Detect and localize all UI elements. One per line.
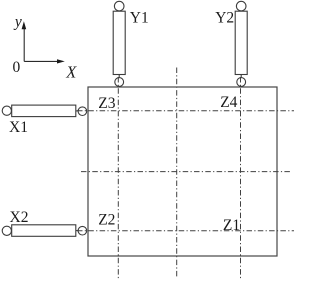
svg-text:X1: X1 xyxy=(9,119,28,136)
svg-text:Z4: Z4 xyxy=(220,94,237,111)
svg-text:Z3: Z3 xyxy=(98,95,115,112)
svg-text:Y2: Y2 xyxy=(215,9,234,26)
Y axis arrow xyxy=(22,21,27,61)
centerline horizontal top through Z3 Z4 xyxy=(77,110,294,112)
svg-text:y: y xyxy=(13,13,22,30)
actuator X2 xyxy=(2,225,87,237)
svg-text:X: X xyxy=(65,62,77,81)
platform plate xyxy=(88,87,277,256)
centerline vertical middle xyxy=(176,68,178,279)
svg-text:X2: X2 xyxy=(10,209,29,226)
centerline vertical right through Z4 Z1 xyxy=(240,77,242,279)
svg-text:Z1: Z1 xyxy=(223,217,240,234)
centerline vertical left through Z3 Z2 xyxy=(117,77,119,279)
actuator Y2 xyxy=(235,1,247,86)
centerline horizontal middle xyxy=(81,171,292,173)
actuator Y1 xyxy=(113,1,125,86)
svg-text:Z2: Z2 xyxy=(98,212,115,229)
X axis arrow xyxy=(24,59,65,63)
svg-text:0: 0 xyxy=(13,59,21,76)
centerline horizontal bottom through Z2 Z1 xyxy=(77,230,294,232)
actuator X1 xyxy=(2,105,87,117)
svg-text:Y1: Y1 xyxy=(130,10,149,27)
